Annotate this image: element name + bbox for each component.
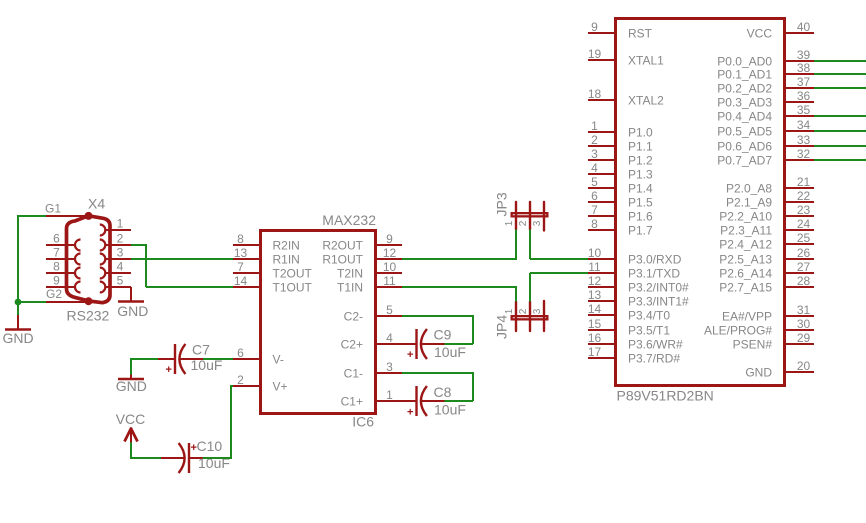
svg-text:4: 4	[386, 331, 393, 345]
svg-text:P3.7/RD#: P3.7/RD#	[628, 352, 680, 366]
svg-text:R2OUT: R2OUT	[322, 239, 363, 253]
X4 pin 5 lead	[105, 286, 131, 288]
svg-text:1: 1	[504, 308, 515, 314]
svg-text:37: 37	[797, 75, 811, 89]
svg-text:T2OUT: T2OUT	[273, 267, 313, 281]
svg-text:EA#/VPP: EA#/VPP	[722, 310, 772, 324]
JP3 pin 3 post	[543, 202, 545, 231]
svg-text:P0.7_AD7: P0.7_AD7	[717, 154, 772, 168]
X4 pin 3 lead	[105, 258, 131, 260]
svg-text:PSEN#: PSEN#	[733, 338, 773, 352]
U1 pin 38 P0.1_AD1	[717, 61, 814, 82]
U1 pin 12 P3.2/INT0#	[588, 274, 689, 295]
jumper JP4 bar	[512, 316, 548, 319]
svg-text:10uF: 10uF	[434, 344, 466, 360]
svg-text:7: 7	[237, 260, 244, 274]
svg-text:7: 7	[591, 203, 598, 217]
U1 pin 29 PSEN#	[733, 331, 814, 352]
wire X4 pin2 vertical	[145, 244, 147, 287]
svg-text:T2IN: T2IN	[337, 267, 363, 281]
X4 contact pin 6	[75, 240, 81, 251]
svg-text:39: 39	[797, 48, 811, 62]
svg-text:XTAL2: XTAL2	[628, 94, 664, 108]
svg-text:33: 33	[797, 133, 811, 147]
svg-text:10uF: 10uF	[434, 402, 466, 418]
wire VCC to C10	[130, 457, 177, 459]
svg-text:IC6: IC6	[352, 414, 374, 430]
U1 pin 6 P1.5	[588, 189, 653, 210]
svg-text:1: 1	[386, 388, 393, 402]
U1 pin 7 P1.6	[588, 203, 653, 224]
IC6 pin 13 R1IN	[233, 246, 300, 267]
X4 pin 8 lead	[46, 272, 75, 274]
svg-text:35: 35	[797, 103, 811, 117]
wire X4 pin3 to R1IN	[131, 258, 233, 260]
wire P0.2_AD2 bus stub	[814, 87, 866, 89]
capacitor C9 lead right	[421, 343, 445, 345]
svg-text:P1.0: P1.0	[628, 126, 653, 140]
svg-text:P3.1/TXD: P3.1/TXD	[628, 267, 680, 281]
svg-text:15: 15	[588, 317, 602, 331]
svg-text:RS232: RS232	[67, 308, 110, 324]
svg-text:P3.3/INT1#: P3.3/INT1#	[628, 295, 689, 309]
svg-text:GND: GND	[2, 330, 33, 346]
wire P0.7_AD7 bus stub	[814, 159, 866, 161]
wire P0.0_AD0 bus stub	[814, 60, 866, 62]
svg-text:4: 4	[117, 260, 124, 274]
JP3 pin numbers	[504, 220, 543, 226]
svg-text:R1OUT: R1OUT	[322, 253, 363, 267]
svg-text:29: 29	[797, 331, 811, 345]
wire X4 pin2 to T1OUT horizontal	[146, 286, 233, 288]
svg-text:5: 5	[591, 175, 598, 189]
svg-text:10: 10	[383, 260, 397, 274]
svg-text:P3.6/WR#: P3.6/WR#	[628, 338, 683, 352]
svg-text:16: 16	[588, 331, 602, 345]
U1 pin 21 P2.0_A8	[726, 175, 814, 196]
IC6 pin 14 T1OUT	[233, 274, 313, 295]
U1 pin 19 XTAL1	[588, 47, 664, 68]
U1 pin 26 P2.5_A13	[719, 246, 814, 267]
U1 pin 34 P0.5_AD5	[717, 118, 814, 139]
svg-text:22: 22	[797, 189, 811, 203]
U1 pin 28 P2.7_A15	[719, 274, 814, 295]
svg-text:P1.1: P1.1	[628, 140, 653, 154]
svg-text:19: 19	[588, 47, 602, 61]
svg-text:3: 3	[591, 147, 598, 161]
IC6 pin 8 R2IN	[233, 232, 300, 253]
capacitor C7 lead right	[180, 358, 204, 360]
svg-text:3: 3	[532, 220, 543, 226]
svg-text:2: 2	[117, 232, 124, 246]
capacitor C7 lead left	[158, 358, 175, 360]
svg-text:XTAL1: XTAL1	[628, 54, 664, 68]
svg-text:C10: C10	[197, 438, 223, 454]
X4 contact pin 7	[75, 254, 81, 265]
svg-text:5: 5	[386, 303, 393, 317]
svg-text:5: 5	[117, 274, 124, 288]
U1 pin 33 P0.6_AD6	[717, 133, 814, 154]
IC6 pin 7 T2OUT	[233, 260, 313, 281]
svg-text:MAX232: MAX232	[322, 212, 376, 228]
wire VCC down	[130, 443, 132, 459]
X4 pin 9 lead	[46, 286, 75, 288]
IC P89V51RD2BN box	[616, 19, 785, 386]
wire C2- loop horizontal	[402, 315, 473, 317]
svg-text:12: 12	[383, 246, 397, 260]
svg-text:ALE/PROG#: ALE/PROG#	[704, 324, 772, 338]
svg-text:9: 9	[591, 20, 598, 34]
wire C10 to V+ vertical	[230, 386, 232, 458]
X4 contact pin 8	[75, 268, 81, 279]
svg-text:P1.2: P1.2	[628, 154, 653, 168]
svg-text:P1.6: P1.6	[628, 210, 653, 224]
U1 pin 23 P2.2_A10	[719, 203, 814, 224]
wire C10 to V+ bottom	[203, 457, 232, 459]
svg-text:2: 2	[237, 373, 244, 387]
svg-text:8: 8	[237, 232, 244, 246]
svg-text:3: 3	[117, 246, 124, 260]
U1 pin 5 P1.4	[588, 175, 653, 196]
U1 pin 24 P2.3_A11	[720, 217, 814, 238]
JP4 pin 2 post	[529, 302, 531, 332]
wire JP3 pin1 vertical	[515, 230, 517, 261]
svg-text:G1: G1	[45, 202, 61, 216]
svg-text:+: +	[166, 364, 172, 376]
U1 pin 27 P2.6_A14	[719, 260, 814, 281]
svg-text:RST: RST	[628, 27, 653, 41]
IC6 pin 5 C2-	[344, 303, 402, 324]
JP4 pin 3 post	[543, 301, 545, 331]
svg-text:+: +	[407, 349, 413, 361]
wire G2	[18, 301, 46, 303]
svg-text:P0.4_AD4: P0.4_AD4	[717, 110, 772, 124]
svg-text:8: 8	[591, 217, 598, 231]
wire V+ stub	[230, 385, 233, 387]
svg-text:13: 13	[588, 288, 602, 302]
U1 pin 16 P3.6/WR#	[588, 331, 683, 352]
X4 pin G1 lead	[46, 215, 89, 217]
wire P0.6_AD6 bus stub	[814, 145, 866, 147]
wire C2- loop bottom	[445, 343, 474, 345]
capacitor C10 lead right	[189, 457, 203, 459]
svg-text:27: 27	[797, 260, 811, 274]
svg-text:C9: C9	[434, 327, 452, 343]
svg-text:VCC: VCC	[747, 27, 773, 41]
connector X4 shell	[67, 216, 111, 303]
wire C1- loop bottom	[445, 400, 474, 402]
svg-text:9: 9	[53, 274, 60, 288]
U1 pin 13 P3.3/INT1#	[588, 288, 689, 309]
svg-text:6: 6	[53, 232, 60, 246]
U1 pin 10 P3.0/RXD	[588, 246, 682, 267]
svg-text:30: 30	[797, 317, 811, 331]
U1 pin 18 XTAL2	[588, 87, 664, 108]
X4 pin 7 lead	[46, 258, 75, 260]
IC MAX232 IC6 box	[261, 231, 376, 414]
IC6 pin 9 R2OUT	[322, 232, 402, 253]
svg-text:G2: G2	[46, 287, 62, 301]
JP4 pin numbers	[504, 308, 543, 314]
X4 contact pin 2	[100, 240, 106, 251]
svg-text:9: 9	[386, 232, 393, 246]
svg-text:X4: X4	[88, 196, 105, 212]
wire R1OUT to JP3 pin1 horizontal	[402, 258, 516, 260]
svg-text:P0.0_AD0: P0.0_AD0	[717, 55, 772, 69]
JP3 pin 2 post	[529, 202, 531, 230]
wire C2- loop vertical	[472, 315, 474, 344]
svg-text:C2+: C2+	[341, 338, 363, 352]
U1 pin 1 P1.0	[588, 119, 653, 140]
svg-text:P0.5_AD5: P0.5_AD5	[717, 125, 772, 139]
svg-text:6: 6	[591, 189, 598, 203]
svg-text:P0.3_AD3: P0.3_AD3	[717, 96, 772, 110]
svg-text:40: 40	[797, 20, 811, 34]
U1 pin 32 P0.7_AD7	[717, 147, 814, 168]
IC6 pin 2 V+	[233, 373, 288, 394]
U1 pin 17 P3.7/RD#	[588, 345, 681, 366]
svg-text:2: 2	[518, 220, 529, 226]
U1 pin 25 P2.4_A12	[719, 231, 814, 252]
svg-text:C2-: C2-	[344, 310, 363, 324]
capacitor C10 curved plate	[179, 443, 185, 473]
wire JP4 pin2 to P3.1/TXD	[530, 272, 588, 274]
wire P0.5_AD5 bus stub	[814, 130, 866, 132]
svg-text:GND: GND	[117, 303, 148, 319]
wire JP3 pin2 vertical	[529, 230, 531, 260]
svg-text:23: 23	[797, 203, 811, 217]
U1 pin 4 P1.3	[588, 161, 653, 182]
svg-text:3: 3	[532, 308, 543, 314]
ground symbol under C7	[116, 375, 147, 395]
JP3 pin 1 post	[515, 202, 517, 230]
svg-text:P3.0/RXD: P3.0/RXD	[628, 253, 682, 267]
X4 contact pin 1	[100, 225, 106, 236]
svg-text:P1.5: P1.5	[628, 196, 653, 210]
jumper JP3 bar	[512, 213, 548, 216]
U1 pin 22 P2.1_A9	[726, 189, 814, 210]
svg-text:JP4: JP4	[494, 315, 510, 339]
svg-text:20: 20	[797, 359, 811, 373]
X4 contact pin 9	[75, 282, 81, 293]
svg-text:36: 36	[797, 89, 811, 103]
wire C7 to ground	[130, 358, 132, 375]
svg-text:32: 32	[797, 147, 811, 161]
svg-text:GND: GND	[745, 366, 772, 380]
svg-text:GND: GND	[116, 378, 147, 394]
U1 pin 14 P3.4/T0	[588, 302, 671, 323]
svg-text:P2.7_A15: P2.7_A15	[719, 281, 772, 295]
capacitor C8 curved plate	[421, 386, 427, 416]
ground symbol at X4 pin 5	[117, 287, 148, 319]
IC6 pin 6 V-	[233, 346, 284, 367]
capacitor C10 plate	[188, 443, 190, 473]
wire G1 to vertical bus	[18, 215, 46, 217]
svg-text:1: 1	[591, 119, 598, 133]
X4 shell bottom ground pad	[85, 297, 93, 305]
svg-text:1: 1	[504, 220, 515, 226]
svg-text:P2.1_A9: P2.1_A9	[726, 196, 772, 210]
svg-text:C1+: C1+	[341, 395, 363, 409]
svg-text:11: 11	[588, 260, 601, 274]
U1 pin 40 VCC	[747, 20, 814, 41]
IC6 pin 12 R1OUT	[322, 246, 402, 267]
X4 contact pin 4	[100, 268, 106, 279]
svg-text:4: 4	[591, 161, 598, 175]
svg-text:8: 8	[53, 260, 60, 274]
JP4 pin 1 post	[515, 302, 517, 332]
wire C1- loop vertical	[472, 372, 474, 401]
wire C7 to V-	[184, 358, 233, 360]
ground symbol far left	[2, 315, 33, 346]
svg-text:28: 28	[797, 274, 811, 288]
svg-text:P2.5_A13: P2.5_A13	[719, 253, 772, 267]
wire C1- loop horizontal	[402, 372, 473, 374]
IC6 pin 11 T1IN	[337, 274, 402, 295]
svg-text:P2.3_A11: P2.3_A11	[720, 224, 772, 238]
IC6 pin 10 T2IN	[337, 260, 402, 281]
svg-text:12: 12	[588, 274, 602, 288]
svg-text:11: 11	[383, 274, 396, 288]
U1 pin 20 GND	[745, 359, 814, 380]
junction at G2	[15, 299, 22, 306]
X4 pin 6 lead	[46, 244, 75, 246]
IC6 pin 3 C1-	[344, 360, 402, 381]
svg-text:P0.2_AD2: P0.2_AD2	[717, 82, 772, 96]
wire JP3 pin2 to P3.0/RXD	[530, 258, 588, 260]
svg-text:P1.4: P1.4	[628, 182, 653, 196]
svg-text:R2IN: R2IN	[273, 239, 300, 253]
svg-text:P1.3: P1.3	[628, 168, 653, 182]
svg-text:P1.7: P1.7	[628, 224, 653, 238]
svg-text:10: 10	[588, 246, 602, 260]
U1 pin 39 P0.0_AD0	[717, 48, 814, 69]
svg-text:10uF: 10uF	[191, 357, 223, 373]
U1 pin 2 P1.1	[588, 133, 653, 154]
X4 contact pin 3	[100, 254, 106, 265]
svg-text:3: 3	[386, 360, 393, 374]
svg-text:24: 24	[797, 217, 811, 231]
capacitor C8 lead right	[421, 400, 445, 402]
capacitor C8 lead left	[402, 400, 417, 402]
svg-text:1: 1	[117, 217, 124, 231]
svg-text:P3.4/T0: P3.4/T0	[628, 309, 670, 323]
capacitor C9 lead left	[402, 343, 417, 345]
U1 pin 35 P0.4_AD4	[717, 103, 814, 124]
svg-text:P2.6_A14: P2.6_A14	[719, 267, 772, 281]
wire P0.1_AD1 bus stub	[814, 73, 866, 75]
svg-text:+: +	[407, 407, 413, 419]
IC6 pin 1 C1+	[341, 388, 402, 409]
svg-text:14: 14	[588, 302, 602, 316]
svg-text:25: 25	[797, 231, 811, 245]
U1 pin 31 EA#/VPP	[722, 303, 814, 324]
capacitor C7 plate	[174, 344, 176, 374]
svg-text:P2.0_A8: P2.0_A8	[726, 182, 772, 196]
svg-text:P0.6_AD6: P0.6_AD6	[717, 140, 772, 154]
svg-text:T1IN: T1IN	[337, 281, 363, 295]
svg-text:38: 38	[797, 61, 811, 75]
U1 pin 3 P1.2	[588, 147, 653, 168]
svg-text:T1OUT: T1OUT	[273, 281, 313, 295]
X4 pin 1 lead	[105, 229, 131, 231]
svg-text:14: 14	[234, 274, 248, 288]
capacitor C8 plate	[415, 386, 417, 416]
svg-text:21: 21	[797, 175, 811, 189]
X4 shell top ground pad	[85, 212, 93, 220]
U1 pin 30 ALE/PROG#	[704, 317, 814, 338]
svg-text:P0.1_AD1: P0.1_AD1	[717, 68, 772, 82]
svg-text:P2.2_A10: P2.2_A10	[719, 210, 772, 224]
wire P0.4_AD4 bus stub	[814, 115, 866, 117]
wire vertical left bus	[17, 215, 19, 315]
svg-text:VCC: VCC	[116, 411, 146, 427]
svg-text:R1IN: R1IN	[273, 253, 300, 267]
svg-text:P89V51RD2BN: P89V51RD2BN	[617, 388, 714, 404]
svg-text:13: 13	[234, 246, 248, 260]
capacitor C9 plate	[415, 329, 417, 359]
U1 pin 11 P3.1/TXD	[588, 260, 680, 281]
svg-text:17: 17	[588, 345, 602, 359]
svg-text:P3.5/T1: P3.5/T1	[628, 324, 670, 338]
X4 pin 2 lead	[105, 244, 131, 246]
wire T1IN to JP4 pin1 horizontal	[402, 286, 516, 288]
svg-text:V+: V+	[273, 380, 288, 394]
svg-text:31: 31	[797, 303, 811, 317]
svg-text:P3.2/INT0#: P3.2/INT0#	[628, 281, 689, 295]
svg-text:C8: C8	[434, 384, 452, 400]
svg-text:C1-: C1-	[344, 367, 363, 381]
svg-text:2: 2	[591, 133, 598, 147]
svg-text:P2.4_A12: P2.4_A12	[719, 238, 772, 252]
svg-text:26: 26	[797, 246, 811, 260]
svg-text:2: 2	[518, 308, 529, 314]
capacitor C10 lead left	[161, 457, 185, 459]
capacitor C7 curved plate	[179, 344, 185, 374]
U1 pin 36 P0.3_AD3	[717, 89, 814, 110]
wire JP4 pin1 vertical	[515, 286, 517, 302]
wire X4 pin2 segment right	[131, 244, 146, 246]
wire C7 left	[131, 358, 161, 360]
X4 contact pin 5	[100, 282, 106, 293]
svg-text:C7: C7	[192, 342, 210, 358]
svg-text:JP3: JP3	[494, 192, 510, 216]
X4 pin G2 lead	[46, 301, 89, 303]
IC6 pin 4 C2+	[341, 331, 402, 352]
capacitor C9 curved plate	[421, 329, 427, 359]
svg-text:6: 6	[237, 346, 244, 360]
svg-text:V-: V-	[273, 353, 284, 367]
U1 pin 8 P1.7	[588, 217, 653, 238]
svg-text:34: 34	[797, 118, 811, 132]
svg-text:7: 7	[53, 246, 60, 260]
VCC supply arrow	[125, 429, 138, 443]
U1 pin 15 P3.5/T1	[588, 317, 671, 338]
X4 pin 4 lead	[105, 272, 131, 274]
U1 pin 37 P0.2_AD2	[717, 75, 814, 96]
wire JP4 pin2 vertical	[529, 273, 531, 302]
U1 pin 9 RST	[588, 20, 653, 41]
svg-text:18: 18	[588, 87, 602, 101]
